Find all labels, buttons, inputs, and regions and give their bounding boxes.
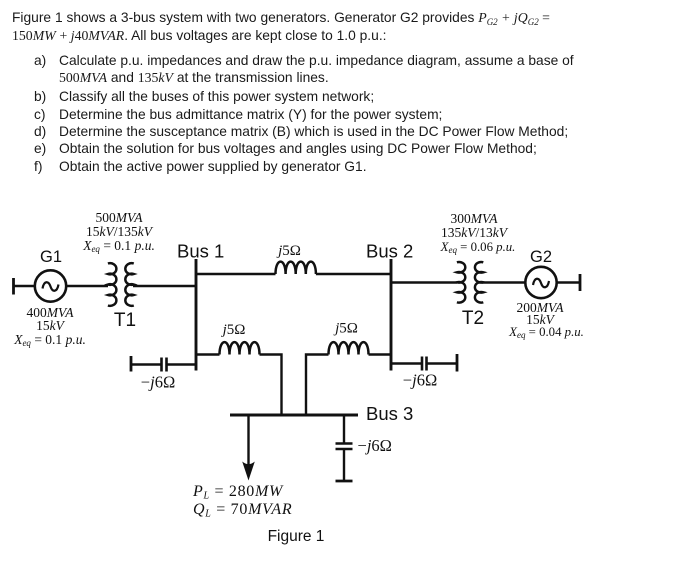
list f (34, 160, 42, 174)
capacitor C3 terminal bar (336, 480, 353, 483)
capacitor C2 terminal bar (456, 354, 459, 372)
wire Bus1 to line L12 (196, 273, 276, 275)
wire Bus1 to line L13 (196, 353, 220, 355)
generator G1 (35, 270, 66, 301)
wire C2 to terminal (427, 362, 458, 364)
svg-text:G2: G2 (530, 248, 552, 266)
svg-text:−j6Ω: −j6Ω (141, 373, 175, 392)
shunt capacitor C1 wire at Bus1 (167, 363, 196, 365)
capacitor C2 plate right (425, 357, 428, 371)
svg-text:j5Ω: j5Ω (333, 321, 358, 337)
bus bar Bus 3 (230, 414, 358, 417)
paragraph line 2 (12, 29, 386, 43)
transformer T2 primary winding (457, 262, 465, 303)
svg-text:−j6Ω: −j6Ω (403, 371, 437, 390)
svg-text:T1: T1 (114, 310, 136, 331)
capacitor C1 terminal bar (130, 356, 133, 372)
wire terminal to G1 (14, 285, 35, 287)
svg-text:j5Ω: j5Ω (221, 322, 246, 338)
generator G1 terminal bar (12, 278, 15, 295)
svg-text:Figure 1: Figure 1 (268, 528, 325, 545)
list b (34, 90, 46, 104)
list e (34, 142, 46, 156)
svg-text:PL = 280MW: PL = 280MW (192, 483, 284, 502)
G2 sine symbol (533, 279, 549, 288)
inductor L13 j5 ohm (220, 342, 260, 354)
G1 sine symbol (43, 282, 59, 291)
svg-text:300MVA: 300MVA (451, 211, 499, 226)
capacitor C1 plate left (160, 358, 163, 372)
generator G2 (525, 267, 556, 298)
svg-text:G1: G1 (40, 248, 62, 266)
paragraph line 1 (12, 11, 550, 25)
wire T1 to Bus 1 (133, 285, 196, 287)
shunt capacitor C2 wire at Bus2 (391, 362, 422, 364)
bus bar Bus 2 (390, 259, 393, 371)
svg-text:j5Ω: j5Ω (276, 243, 301, 259)
inductor L12 j5 ohm (276, 262, 316, 274)
svg-text:15kV/135kV: 15kV/135kV (86, 224, 154, 239)
wire G2 to terminal (557, 281, 580, 283)
svg-text:−j6Ω: −j6Ω (358, 436, 392, 455)
svg-text:Bus 1: Bus 1 (177, 241, 224, 262)
wire L13 corner to Bus3 (260, 355, 282, 416)
generator G2 terminal bar (579, 274, 582, 291)
capacitor C2 plate left (421, 357, 424, 371)
svg-text:Bus 3: Bus 3 (366, 403, 413, 424)
load arrow at Bus 3 (247, 415, 249, 466)
transformer T1 primary winding (108, 263, 116, 306)
svg-text:T2: T2 (462, 308, 484, 329)
capacitor C3 plate bottom (336, 448, 353, 451)
wire T2 to G2 (482, 281, 526, 283)
inductor L23 j5 ohm (329, 342, 369, 354)
list c (34, 108, 46, 122)
svg-text:Xeq = 0.06 p.u.: Xeq = 0.06 p.u. (440, 240, 516, 255)
capacitor C3 plate top (336, 442, 353, 445)
svg-text:135kV/13kV: 135kV/13kV (441, 225, 509, 240)
transformer T2 secondary winding (475, 262, 483, 303)
svg-text:Xeq = 0.1 p.u.: Xeq = 0.1 p.u. (82, 238, 155, 254)
svg-text:Xeq = 0.04 p.u.: Xeq = 0.04 p.u. (508, 325, 584, 340)
wire C1 to terminal (131, 363, 162, 365)
wire L12 to Bus2 (316, 273, 391, 275)
wire G1 to T1 (66, 285, 108, 287)
list d (34, 125, 46, 139)
wire C3 to terminal (343, 449, 345, 481)
svg-text:15kV: 15kV (36, 318, 65, 333)
list a (34, 54, 46, 68)
capacitor C1 plate right (165, 358, 168, 372)
wire Bus2 to T2 (391, 281, 457, 283)
svg-text:QL = 70MVAR: QL = 70MVAR (193, 501, 292, 520)
bus bar Bus 1 (195, 259, 198, 371)
svg-text:500MVA: 500MVA (96, 210, 144, 225)
wire L23 corner to Bus3 (306, 355, 329, 416)
wire Bus3 to capacitor C3 (343, 415, 345, 444)
svg-text:Bus 2: Bus 2 (366, 241, 413, 262)
transformer T1 secondary winding (125, 263, 133, 306)
svg-text:Xeq = 0.1 p.u.: Xeq = 0.1 p.u. (13, 332, 86, 348)
wire Bus2 to line L23 (369, 353, 392, 355)
